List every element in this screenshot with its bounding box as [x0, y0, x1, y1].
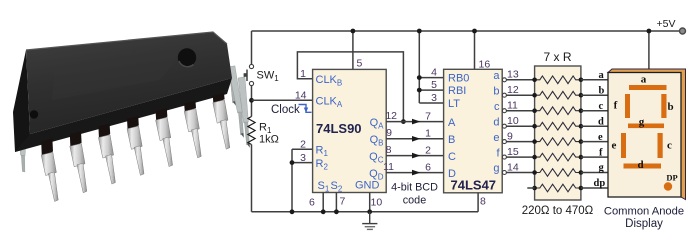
svg-text:e: e: [493, 132, 499, 144]
svg-text:8: 8: [480, 196, 486, 208]
wires: QA-QD to 74LS47 A-D with arrows: [386, 119, 443, 176]
svg-text:C: C: [448, 151, 456, 163]
IC photo: pin-1 dimple (left): [30, 110, 38, 118]
svg-text:7 x R: 7 x R: [543, 50, 571, 64]
svg-text:f: f: [599, 147, 603, 158]
svg-text:4: 4: [431, 67, 437, 79]
resistor Rdp: [535, 184, 581, 192]
svg-text:RBI: RBI: [448, 85, 466, 97]
segment g: [628, 124, 664, 129]
svg-text:b: b: [667, 101, 673, 113]
svg-text:10: 10: [371, 197, 383, 209]
resistor Rd: [535, 122, 581, 130]
wire: pin 5 VCC to rail: [352, 31, 354, 69]
7-segment display body: [608, 69, 686, 200]
display pin letters a-dp: [594, 70, 606, 189]
svg-text:RB0: RB0: [448, 73, 469, 85]
svg-text:74LS90: 74LS90: [316, 121, 362, 136]
svg-text:Common Anode: Common Anode: [604, 206, 684, 218]
svg-text:a: a: [599, 70, 605, 81]
resistor Rf: [535, 153, 581, 161]
svg-text:A: A: [448, 117, 456, 129]
resistor R1: [248, 117, 255, 145]
ground symbol: [362, 212, 377, 230]
wire: +5V supply rail: [252, 30, 681, 32]
resistor Rc: [535, 107, 581, 115]
svg-text:c: c: [667, 140, 672, 152]
IC U2 74LS47 body: [444, 69, 503, 193]
segment labels: [612, 74, 678, 183]
svg-text:Clock: Clock: [271, 104, 300, 116]
svg-text:2: 2: [300, 139, 306, 151]
svg-text:5: 5: [357, 58, 363, 70]
segment a: [629, 85, 667, 90]
svg-text:8: 8: [386, 144, 392, 156]
svg-text:+5V: +5V: [657, 18, 676, 30]
wire: +5V to display anode: [648, 31, 650, 70]
wire: pin 16 VCC to rail: [474, 31, 476, 69]
svg-text:LT: LT: [448, 98, 460, 110]
resistor Rb: [535, 91, 581, 99]
resistor Ra: [535, 76, 581, 84]
node: clock junction: [249, 98, 254, 103]
74LS90 pin labels: [316, 74, 385, 194]
+5V terminal: [680, 28, 686, 34]
svg-text:74LS47: 74LS47: [451, 178, 497, 193]
wire: ground rail (bottom): [252, 211, 479, 213]
svg-text:d: d: [637, 159, 643, 171]
svg-text:7: 7: [425, 111, 431, 123]
svg-text:11: 11: [383, 161, 394, 173]
wire: pin 8 GND to ground rail: [477, 193, 479, 212]
svg-text:16: 16: [479, 59, 491, 71]
svg-text:e: e: [598, 132, 603, 143]
wire: QA feedback to CLKB pin 1: [297, 52, 403, 122]
svg-text:7: 7: [340, 196, 346, 208]
svg-text:10: 10: [507, 115, 519, 127]
wire: pins 2,3 tie-down: [290, 149, 313, 214]
svg-text:11: 11: [507, 100, 518, 112]
svg-text:1: 1: [425, 128, 431, 140]
svg-text:code: code: [403, 195, 426, 207]
wires: 74LS47 outputs to resistor network: [506, 80, 534, 173]
resistor Rg: [535, 169, 581, 177]
svg-text:1kΩ: 1kΩ: [259, 134, 279, 146]
svg-text:5: 5: [431, 79, 437, 91]
74LS47 pin numbers: [425, 59, 519, 208]
wires: resistors to display pins: [581, 80, 608, 188]
wire: SW1 to clock node and R1: [251, 86, 253, 117]
svg-text:Display: Display: [625, 218, 663, 230]
IC U1 74LS90 body: [313, 69, 387, 192]
svg-text:c: c: [599, 101, 604, 112]
IC photo: DIP-14 package body: [13, 32, 232, 152]
svg-text:6: 6: [425, 162, 431, 174]
svg-text:b: b: [599, 85, 605, 96]
decimal point LED: [664, 182, 672, 190]
svg-text:g: g: [639, 116, 645, 128]
svg-text:c: c: [494, 101, 500, 113]
svg-text:6: 6: [309, 197, 315, 209]
svg-text:GND: GND: [355, 180, 380, 192]
wire: R1 to ground rail: [251, 145, 253, 212]
svg-text:3: 3: [431, 92, 437, 104]
svg-text:9: 9: [507, 130, 513, 142]
svg-text:12: 12: [507, 84, 519, 96]
svg-text:d: d: [493, 116, 499, 128]
svg-text:d: d: [598, 116, 604, 127]
svg-text:DP: DP: [666, 173, 677, 183]
IC photo: mold hole (right): [178, 48, 196, 66]
svg-text:14: 14: [507, 161, 519, 173]
segment c: [658, 133, 663, 158]
svg-text:a: a: [493, 70, 500, 82]
pushbutton SW1: [244, 64, 254, 85]
IC photo: front-row pins: [41, 93, 230, 201]
74LS47 pin labels: [448, 70, 500, 180]
resistor network box: [535, 66, 581, 200]
clock falling-edge symbol: [299, 105, 312, 113]
IC photo: back-row pins: [19, 56, 250, 172]
svg-text:dp: dp: [594, 178, 606, 189]
wire: rail down to SW1: [251, 31, 253, 65]
74LS90 pin numbers: [295, 58, 397, 209]
svg-text:2: 2: [425, 145, 431, 157]
svg-text:1: 1: [300, 68, 306, 80]
svg-text:3: 3: [300, 152, 306, 164]
wire: clock node to CLKA pin 14: [252, 99, 313, 101]
wire: RB0 RBI LT to +5V rail: [417, 29, 444, 103]
segment b: [661, 94, 666, 118]
svg-text:g: g: [599, 163, 605, 174]
svg-text:13: 13: [507, 69, 519, 81]
svg-text:f: f: [614, 100, 618, 112]
segment d: [624, 164, 662, 169]
svg-text:12: 12: [385, 110, 397, 122]
svg-text:g: g: [493, 163, 499, 175]
wires: S1 S2 GND to ground rail: [321, 193, 372, 215]
segment e: [621, 133, 626, 158]
dp resistor input stub: [527, 187, 534, 189]
svg-text:9: 9: [386, 127, 392, 139]
resistor Re: [535, 138, 581, 146]
segment f: [625, 94, 630, 118]
svg-text:e: e: [612, 140, 617, 152]
svg-text:4-bit BCD: 4-bit BCD: [391, 182, 438, 194]
svg-text:B: B: [448, 134, 455, 146]
svg-text:220Ω to 470Ω: 220Ω to 470Ω: [522, 205, 594, 217]
svg-text:15: 15: [507, 146, 519, 158]
74LS47 output bubbles: [502, 78, 506, 175]
svg-text:a: a: [641, 74, 647, 86]
svg-text:14: 14: [295, 90, 307, 102]
svg-text:b: b: [493, 85, 499, 97]
